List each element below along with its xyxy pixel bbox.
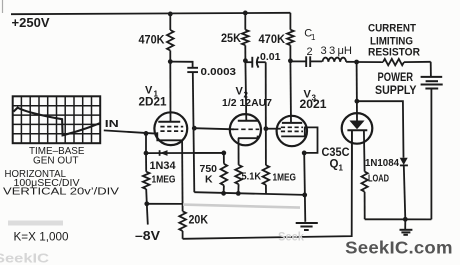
svg-text:25K: 25K [221,33,242,45]
wire grid bias row [145,133,147,153]
svg-text:V: V [145,84,153,96]
svg-text:20K: 20K [189,212,209,226]
wire 750K top tie [194,152,224,154]
svg-text:2021: 2021 [300,99,328,111]
tube V2 1/2 12AU7 [222,85,272,145]
junction dot V3 cathode [302,151,307,156]
junction dot top rail / 470K [168,12,173,17]
svg-text:0.01: 0.01 [260,51,281,63]
inductor 33uH [321,45,357,62]
svg-text:1MEG: 1MEG [273,172,297,184]
wire SCR cathode lead [351,130,353,170]
junction dot 750K top [221,151,226,156]
svg-text:–8V: –8V [135,229,161,243]
ground (load return) [400,230,413,235]
wire diode to junction [404,165,406,219]
wire 1N34 row to 750K top [146,152,224,154]
junction dot top rail / 25K [243,11,248,16]
svg-text:3 3 μH: 3 3 μH [321,45,353,57]
svg-text:1N34: 1N34 [150,160,177,172]
junction dot SCR anode / 1N1084 branch [355,99,360,104]
svg-text:470K: 470K [259,34,286,46]
svg-text:VERTICAL 20v’/DIV: VERTICAL 20v’/DIV [3,185,119,197]
capacitor C1 [290,28,322,68]
wire V2 grid tie [194,128,234,129]
junction dot C1/coil out / SCR anode [354,60,359,65]
wire V2 plate lead [244,61,247,121]
svg-text:1: 1 [339,164,344,173]
svg-text:K=X 1,000: K=X 1,000 [14,231,69,243]
svg-text:K: K [205,173,213,185]
svg-text:CURRENT: CURRENT [368,22,416,34]
wire -8V node to cathode line [147,203,183,205]
wire 1N1084 branch [357,101,404,158]
scan edge mark top-left [2,0,4,13]
scan smudge [8,221,63,226]
svg-text:IN: IN [105,118,119,130]
svg-text:V: V [236,85,244,97]
svg-text:LOAD: LOAD [368,173,389,185]
capacitor 0.0003 [187,66,236,78]
resistor 470K (V1 plate load) [139,14,174,62]
resistor 1MEG (grid return) [143,153,176,204]
wire +250V top rail [11,13,290,14]
svg-text:C35C: C35C [322,147,350,159]
svg-text:POWER: POWER [378,72,414,84]
svg-text:1N1084: 1N1084 [365,157,399,169]
svg-text:RESISTOR: RESISTOR [368,46,420,58]
wire to 0.0003 cap [170,62,192,68]
battery POWER SUPPLY [375,62,443,220]
resistor 5.1K [235,165,261,193]
junction dot 470K bottom / 0.0003 branch [168,59,173,64]
wire IN [104,130,158,133]
waveform trace [14,108,100,136]
svg-text:Seek: Seek [278,230,304,244]
wire V3 plate lead [289,61,292,123]
junction dot 5.1K bottom rail B [236,191,241,196]
diode 1N1084 [365,157,408,169]
wire V3 cathode to ground [304,153,305,222]
capacitor 0.01 [245,51,280,68]
wire 0.0003 bottom to rail B [193,72,195,192]
svg-text:Q: Q [330,159,339,171]
svg-text:GEN OUT: GEN OUT [33,155,79,167]
junction dot 1N34 row [144,151,149,156]
wire -8V stub [147,204,148,225]
resistor 470K (V3 grid/plate branch) [259,13,294,61]
svg-text:1/2 12AU7: 1/2 12AU7 [222,97,272,109]
junction dot 25K bottom / 0.01 branch [243,58,248,63]
junction dot rail B / ground stub [302,193,307,198]
wire V1 cathode lead down [181,140,184,211]
junction dot load/battery/diode [403,217,408,222]
tube V3 2021 [277,88,328,153]
svg-text:1MEG: 1MEG [152,173,176,185]
svg-text:0.0003: 0.0003 [201,66,237,78]
resistor 750K [200,153,228,193]
wire V2 cathode to 5.1K [238,138,240,165]
junction dot V2 grid / 0.0003 line [192,126,197,131]
thyristor Q1 C35C [322,113,373,172]
svg-text:2: 2 [307,46,313,58]
junction dot 750K bottom rail B [221,191,226,196]
svg-text:2D21: 2D21 [139,97,168,109]
resistor 25K (V2 plate load) [221,13,249,61]
ground (rail B) [296,223,318,230]
svg-text:+250V: +250V [12,15,50,30]
wire bottom rail (20K to SCR cathode) [183,130,352,238]
svg-text:SeekIC: SeekIC [0,251,50,265]
junction dot IN / 1N34 branch [144,131,149,136]
resistor current limiting [357,22,431,65]
junction dot -8V node [144,201,149,206]
diode 1N34 [150,150,177,172]
wire junction to ground [404,219,406,229]
wire SCR gate lead to LOAD [363,130,366,171]
resistor 20K [179,211,208,239]
wire V3 grid tie [266,128,281,130]
wire V3 grid coupling vertical [265,62,267,165]
tube V1 2D21 [139,84,188,145]
svg-text:470K: 470K [139,34,166,46]
wire rail B (cathode ground bus) [194,192,304,195]
svg-text:SeekIC.com: SeekIC.com [345,238,453,258]
resistor LOAD [362,172,390,220]
junction dot 470K#2 bottom / C1 branch [288,58,293,63]
junction dot V3 grid tie [264,126,269,131]
svg-text:5.1K: 5.1K [242,171,262,183]
wire V1 plate lead [169,62,171,122]
svg-text:1: 1 [311,33,316,42]
svg-text:SUPPLY: SUPPLY [375,85,417,97]
wire SCR anode [356,62,358,121]
wire LOAD bottom / battery return [365,218,432,220]
resistor 1MEG (V3 grid) [263,165,296,194]
scope graticule box TIME-BASE GEN OUT [13,96,101,143]
